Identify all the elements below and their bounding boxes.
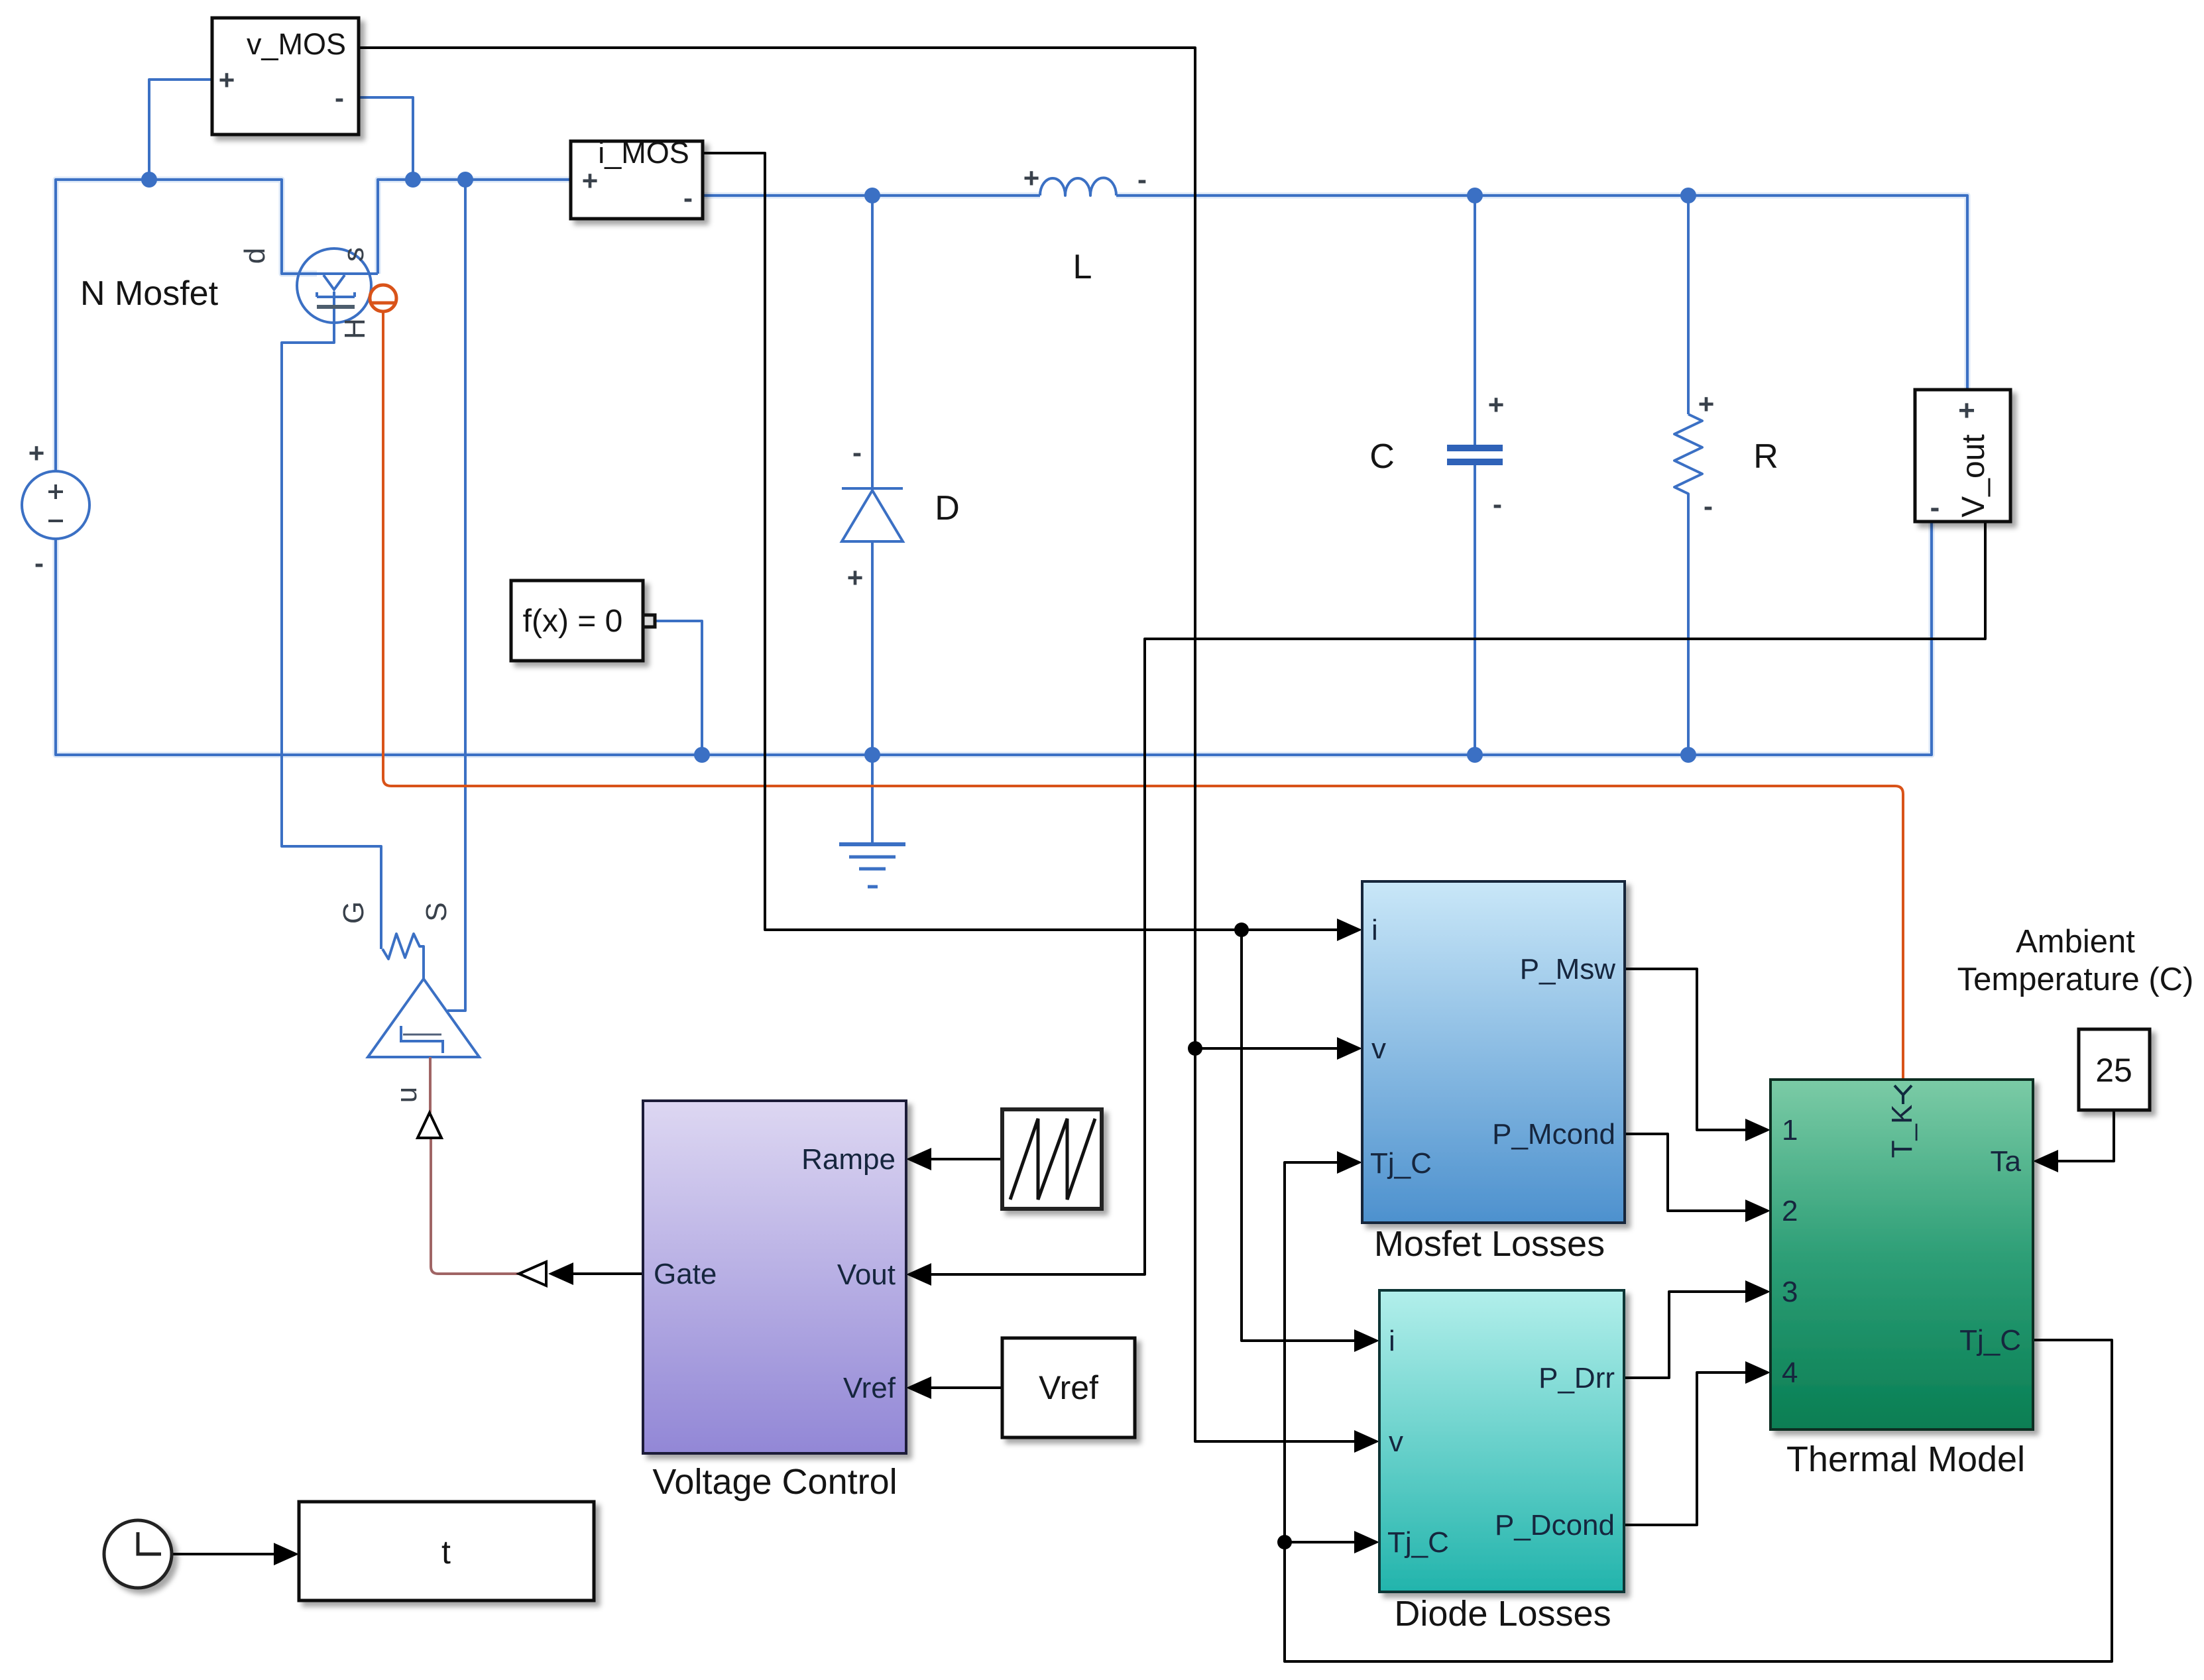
- svg-text:Diode Losses: Diode Losses: [1394, 1594, 1611, 1634]
- svg-text:R: R: [1753, 437, 1778, 476]
- svg-text:v: v: [1389, 1426, 1403, 1458]
- svg-text:Tj_C: Tj_C: [1387, 1526, 1449, 1559]
- svg-text:+: +: [582, 165, 599, 196]
- svg-text:P_Msw: P_Msw: [1520, 953, 1615, 985]
- svg-text:P_Drr: P_Drr: [1538, 1362, 1615, 1394]
- svg-text:-: -: [1930, 491, 1940, 524]
- svg-text:Vout: Vout: [837, 1259, 896, 1291]
- svg-text:-: -: [852, 437, 862, 468]
- svg-text:i: i: [1371, 914, 1378, 946]
- svg-text:-: -: [34, 547, 44, 579]
- svg-text:d: d: [239, 248, 271, 264]
- svg-text:G: G: [337, 901, 370, 924]
- svg-text:-: -: [1137, 164, 1147, 195]
- svg-text:D: D: [935, 489, 960, 528]
- svg-text:-: -: [1704, 490, 1713, 522]
- svg-text:Tj_C: Tj_C: [1370, 1147, 1432, 1180]
- svg-text:3: 3: [1782, 1276, 1798, 1308]
- svg-text:+: +: [847, 562, 864, 593]
- svg-text:Ta: Ta: [1991, 1145, 2022, 1178]
- svg-text:Tj_C: Tj_C: [1959, 1324, 2021, 1357]
- svg-text:N Mosfet: N Mosfet: [80, 274, 219, 313]
- svg-text:2: 2: [1782, 1195, 1798, 1227]
- svg-text:H: H: [339, 318, 371, 339]
- svg-text:Thermal Model: Thermal Model: [1786, 1439, 2025, 1479]
- svg-text:s: s: [337, 247, 370, 262]
- svg-text:i_MOS: i_MOS: [598, 136, 689, 170]
- svg-text:t: t: [441, 1534, 451, 1571]
- svg-text:V_out: V_out: [1956, 434, 1991, 517]
- svg-text:Gate: Gate: [654, 1258, 717, 1290]
- svg-text:Vref: Vref: [843, 1372, 896, 1404]
- svg-text:f(x) = 0: f(x) = 0: [523, 604, 623, 639]
- svg-text:Ambient: Ambient: [2016, 924, 2135, 960]
- svg-text:i: i: [1389, 1325, 1395, 1357]
- svg-text:Temperature (C): Temperature (C): [1957, 962, 2194, 997]
- svg-text:S: S: [420, 902, 453, 921]
- svg-text:Mosfet Losses: Mosfet Losses: [1374, 1224, 1605, 1264]
- svg-text:P_Dcond: P_Dcond: [1495, 1509, 1615, 1541]
- svg-text:T_K: T_K: [1886, 1105, 1918, 1158]
- svg-text:4: 4: [1782, 1357, 1798, 1389]
- svg-text:+: +: [29, 437, 45, 469]
- svg-text:25: 25: [2095, 1052, 2132, 1089]
- svg-text:-: -: [683, 182, 693, 213]
- svg-text:-: -: [335, 82, 344, 113]
- svg-text:Vref: Vref: [1039, 1369, 1098, 1406]
- svg-text:+: +: [1023, 162, 1040, 194]
- svg-text:L: L: [1073, 248, 1092, 286]
- svg-text:v: v: [1371, 1033, 1386, 1065]
- svg-text:C: C: [1369, 437, 1395, 476]
- svg-text:+: +: [1698, 388, 1715, 420]
- svg-text:Voltage Control: Voltage Control: [652, 1462, 897, 1502]
- svg-text:-: -: [1493, 488, 1502, 520]
- svg-text:+: +: [1488, 389, 1505, 420]
- svg-text:+: +: [1958, 394, 1975, 427]
- svg-text:Rampe: Rampe: [801, 1143, 896, 1176]
- svg-text:1: 1: [1782, 1114, 1798, 1147]
- svg-text:+: +: [219, 64, 235, 95]
- svg-text:P_Mcond: P_Mcond: [1492, 1118, 1615, 1150]
- svg-text:v_MOS: v_MOS: [247, 27, 346, 61]
- svg-text:u: u: [390, 1087, 423, 1103]
